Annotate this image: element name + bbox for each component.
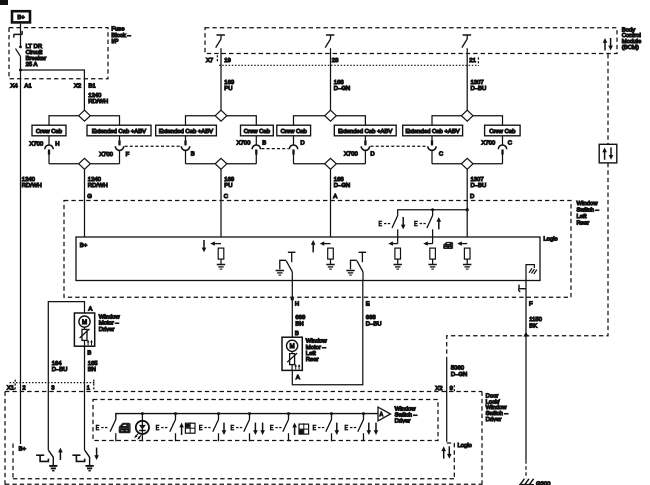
- svg-text:Breaker: Breaker: [26, 56, 47, 62]
- svg-text:C: C: [508, 140, 513, 146]
- svg-text:Window: Window: [99, 314, 121, 320]
- svg-text:Extended Cab +ABV: Extended Cab +ABV: [338, 129, 392, 135]
- input D pulldown: arrow resistor ground: [457, 241, 471, 269]
- wire 169 PU pin C: [220, 169, 222, 248]
- pulldown from E-switch 2: [423, 241, 437, 269]
- svg-text:D–BU: D–BU: [471, 86, 487, 92]
- connector X700 F: [119, 136, 121, 141]
- svg-text:B+: B+: [80, 243, 88, 249]
- option box Extended Cab +ABV 1: [87, 125, 151, 136]
- svg-text:1: 1: [87, 385, 90, 391]
- connector C left: [431, 136, 433, 141]
- ground G200: [519, 479, 534, 485]
- svg-text:E: E: [366, 302, 370, 308]
- BCM output switch pin 21: [462, 35, 471, 48]
- option box Extended Cab +ABV 3: [334, 125, 396, 136]
- splice diamond S2 upper: [215, 110, 227, 121]
- svg-text:Rear: Rear: [577, 220, 590, 226]
- svg-text:Crew Cab: Crew Cab: [36, 129, 63, 135]
- svg-text:B1: B1: [88, 83, 95, 89]
- svg-text:LT DR: LT DR: [26, 44, 42, 50]
- svg-text:X7: X7: [206, 58, 213, 64]
- illumination lamp: [134, 412, 149, 441]
- option box Crew Cab 4: [485, 125, 520, 136]
- svg-text:A: A: [88, 306, 92, 312]
- svg-text:A1: A1: [24, 83, 31, 89]
- connector D left: [293, 136, 295, 145]
- svg-text:X1: X1: [7, 385, 14, 391]
- svg-text:2: 2: [22, 385, 25, 391]
- dashed link D-C: [371, 145, 428, 147]
- svg-text:F: F: [529, 302, 533, 308]
- wire branch cluster2: [186, 116, 216, 126]
- option box Crew Cab 1: [32, 125, 66, 136]
- E-switch down: [379, 216, 406, 244]
- wire 169 PU from BCM 19: [220, 48, 222, 110]
- svg-text:B: B: [191, 151, 195, 157]
- wire rejoin cluster1: [49, 163, 79, 165]
- logic arrows door switch: [441, 446, 446, 458]
- option box Extended Cab +ABV 4: [403, 125, 463, 136]
- svg-text:Driver: Driver: [486, 417, 502, 423]
- circuit breaker LT DR 25A: [14, 31, 23, 70]
- svg-text:Logic: Logic: [458, 443, 472, 449]
- svg-text:Window: Window: [306, 339, 328, 345]
- splice diamond S2 lower: [215, 158, 227, 169]
- wire left B+ feed down to door switch: [20, 70, 22, 444]
- svg-text:Driver: Driver: [395, 418, 411, 424]
- switch bus B+ rail: [116, 414, 378, 420]
- svg-text:D–BU: D–BU: [52, 367, 68, 373]
- window switch left rear dashed box: [64, 201, 571, 298]
- svg-text:Block –: Block –: [111, 33, 131, 39]
- serial data symbol box: [599, 144, 617, 163]
- svg-text:A: A: [296, 375, 300, 381]
- svg-text:164: 164: [52, 361, 63, 367]
- svg-text:H: H: [55, 142, 59, 148]
- input C pulldown: arrows resistor ground: [202, 240, 226, 269]
- serial data dashed wire down and left: [447, 163, 608, 358]
- svg-text:G200: G200: [536, 481, 551, 485]
- wire 164 D-BU driver up leg: [48, 302, 84, 451]
- svg-text:Window: Window: [577, 201, 599, 207]
- car icon logic: [443, 242, 453, 249]
- ground: [276, 271, 284, 276]
- svg-text:(BCM): (BCM): [622, 45, 639, 51]
- svg-text:169: 169: [224, 80, 234, 86]
- svg-text:B+: B+: [19, 446, 27, 452]
- svg-text:169: 169: [224, 177, 234, 183]
- svg-text:BK: BK: [529, 323, 537, 329]
- wire 168 D-GN from BCM 28: [330, 48, 332, 110]
- E-switch up: [414, 210, 441, 244]
- BCM serial data arrows: [603, 38, 608, 50]
- svg-text:Crew Cab: Crew Cab: [281, 129, 308, 135]
- svg-text:BN: BN: [295, 321, 303, 327]
- splice diamond S1 lower: [79, 158, 91, 169]
- connector X700 H: [48, 136, 50, 145]
- option box Crew Cab 3: [277, 125, 311, 136]
- BCM output switch pin 19: [216, 35, 225, 48]
- svg-text:Extended Cab +ABV: Extended Cab +ABV: [92, 129, 146, 135]
- switch row inner dashed box: [93, 400, 438, 441]
- serial data dashed wire from BCM: [607, 54, 609, 144]
- svg-text:165: 165: [88, 361, 99, 367]
- down arrow window down: [94, 448, 99, 460]
- BCM output switch pin 28: [325, 35, 334, 48]
- connector X700 C right: [502, 136, 504, 145]
- svg-text:B: B: [262, 140, 266, 146]
- svg-text:Crew Cab: Crew Cab: [244, 129, 271, 135]
- connector X700 D right: [364, 136, 366, 141]
- lower logic dashed border: [13, 443, 454, 479]
- svg-text:D–GN: D–GN: [451, 372, 467, 378]
- wire: [291, 272, 293, 281]
- svg-text:D: D: [470, 194, 474, 200]
- svg-text:D–BU: D–BU: [366, 321, 382, 327]
- svg-text:25 A: 25 A: [26, 62, 38, 68]
- svg-text:RD/WH: RD/WH: [88, 183, 108, 189]
- wire 168 D-GN pin A: [330, 169, 332, 248]
- relay switch down-drive: [36, 450, 57, 470]
- svg-text:Rear: Rear: [306, 357, 319, 363]
- svg-text:5060: 5060: [451, 366, 465, 372]
- svg-text:X700: X700: [99, 152, 113, 158]
- svg-text:C: C: [439, 152, 444, 158]
- connector X700 B right: [255, 136, 257, 145]
- logic switch output H: [280, 252, 296, 271]
- car icon door: [119, 423, 131, 433]
- svg-text:PU: PU: [224, 183, 232, 189]
- svg-text:D: D: [370, 152, 374, 158]
- switch SW2 window up: [174, 412, 177, 415]
- svg-text:A: A: [333, 194, 337, 200]
- svg-text:1240: 1240: [88, 93, 102, 99]
- svg-text:Motor –: Motor –: [306, 345, 327, 351]
- svg-text:RD/WH: RD/WH: [88, 99, 108, 105]
- svg-text:G: G: [87, 194, 92, 200]
- svg-text:X700: X700: [29, 142, 43, 148]
- svg-text:Circuit: Circuit: [26, 50, 43, 56]
- door lock switch outer dashed box: [5, 392, 482, 485]
- svg-text:X2: X2: [74, 83, 81, 89]
- svg-text:H: H: [295, 302, 299, 308]
- switch SW6 rear down: [330, 412, 333, 415]
- wire H 669 BN to left rear motor: [291, 281, 293, 338]
- wire 1307 D-BU pin D: [466, 169, 468, 248]
- wire F 1150 BK ground wire: [525, 281, 527, 461]
- svg-text:C: C: [224, 194, 229, 200]
- wire B+ to breaker: [20, 24, 22, 34]
- svg-text:Left: Left: [306, 351, 316, 357]
- svg-text:B: B: [87, 350, 91, 356]
- svg-text:168: 168: [334, 80, 345, 86]
- svg-text:D–GN: D–GN: [334, 86, 350, 92]
- wire dashed continuation to G200: [525, 460, 527, 478]
- svg-text:Logic: Logic: [543, 237, 557, 243]
- dashed link B-D: [261, 148, 288, 150]
- svg-text:1307: 1307: [471, 177, 484, 183]
- BCM dashed box: [205, 28, 617, 54]
- svg-text:D–GN: D–GN: [334, 183, 350, 189]
- option box Extended Cab +ABV 2: [156, 125, 217, 136]
- svg-text:I/P: I/P: [111, 39, 118, 45]
- switch SW7 rear express: [362, 412, 365, 415]
- wire breaker junction to X2 B1: [21, 70, 85, 110]
- E-switch pair bus tapping wire D: [398, 210, 468, 216]
- svg-text:B+: B+: [17, 15, 25, 21]
- svg-text:Extended Cab +ABV: Extended Cab +ABV: [405, 129, 459, 135]
- dashed link F-B: [125, 145, 181, 147]
- junction dot: [19, 69, 22, 72]
- splice diamond S4 lower: [461, 158, 473, 169]
- svg-text:1150: 1150: [529, 317, 542, 323]
- wire branch cluster1: [49, 116, 79, 126]
- wire 5060 D-GN: [446, 358, 448, 442]
- connector X1 row: [10, 382, 95, 384]
- svg-text:Extended Cab +ABV: Extended Cab +ABV: [159, 129, 213, 135]
- logic box U1: [76, 237, 540, 281]
- wire E 668 D-BU motor loop: [292, 281, 363, 385]
- svg-text:669: 669: [295, 315, 305, 321]
- switch SW1 lock: [96, 425, 108, 431]
- svg-text:28: 28: [332, 58, 339, 64]
- wire: [362, 272, 364, 281]
- connector B left: [185, 136, 187, 141]
- svg-text:D–BU: D–BU: [471, 183, 487, 189]
- svg-text:D: D: [300, 140, 304, 146]
- svg-text:1307: 1307: [471, 80, 484, 86]
- svg-text:B: B: [295, 331, 299, 337]
- svg-text:668: 668: [366, 315, 377, 321]
- svg-text:Switch –: Switch –: [577, 208, 600, 214]
- svg-text:Left: Left: [577, 214, 587, 220]
- input A pullup: arrows resistor ground: [311, 240, 335, 269]
- fuse block I/P dashed box: [9, 28, 108, 79]
- wire 1307 D-BU from BCM 21: [466, 48, 468, 110]
- svg-text:Motor –: Motor –: [99, 321, 120, 327]
- ground: [346, 271, 354, 276]
- svg-text:1240: 1240: [88, 177, 102, 183]
- svg-text:F: F: [126, 152, 130, 158]
- svg-text:RD/WH: RD/WH: [22, 183, 42, 189]
- svg-text:Fuse: Fuse: [111, 27, 125, 33]
- svg-text:168: 168: [334, 177, 345, 183]
- logic switch output E: [351, 252, 367, 271]
- svg-text:PU: PU: [224, 86, 232, 92]
- svg-text:Driver: Driver: [99, 327, 115, 333]
- svg-text:1240: 1240: [22, 177, 36, 183]
- wire branch cluster4: [432, 116, 462, 126]
- svg-text:19: 19: [224, 58, 231, 64]
- window motor left rear M2: [282, 337, 302, 370]
- svg-text:X700: X700: [237, 140, 251, 146]
- wire rejoin cluster3: [294, 163, 325, 165]
- up arrow window up: [58, 448, 63, 460]
- svg-text:BN: BN: [88, 367, 96, 373]
- switch SW5 rear up: [287, 412, 290, 415]
- wire rejoin cluster4: [432, 163, 462, 165]
- svg-text:X700: X700: [481, 140, 495, 146]
- pulldown from E-switch 1: [388, 241, 402, 269]
- splice diamond S3 upper: [325, 110, 337, 121]
- svg-text:3: 3: [51, 385, 55, 391]
- splice diamond S1 upper: [79, 110, 91, 121]
- wire rejoin cluster2: [186, 163, 216, 165]
- switch SW4 express down: [248, 412, 251, 415]
- svg-text:X4: X4: [10, 83, 18, 89]
- wire branch cluster3: [294, 116, 325, 126]
- wire 1240 RD/WH pin G: [84, 169, 86, 237]
- amplifier A window switch driver: [378, 407, 391, 421]
- option box Crew Cab 2: [241, 125, 274, 136]
- page corner artifact: [0, 0, 8, 5]
- chassis ground output F inside logic: [526, 265, 537, 281]
- splice diamond S3 lower: [325, 158, 337, 169]
- svg-text:Crew Cab: Crew Cab: [489, 129, 516, 135]
- relay switch up-drive: [72, 450, 93, 470]
- case connector hook on F wire: [519, 285, 526, 292]
- svg-text:X700: X700: [344, 152, 358, 158]
- B+ power symbol box: [12, 11, 30, 22]
- switch SW3 window down: [217, 412, 220, 415]
- splice diamond S4 upper: [461, 110, 473, 121]
- wire 165 BN driver down leg: [84, 346, 86, 450]
- svg-text:21: 21: [469, 58, 476, 64]
